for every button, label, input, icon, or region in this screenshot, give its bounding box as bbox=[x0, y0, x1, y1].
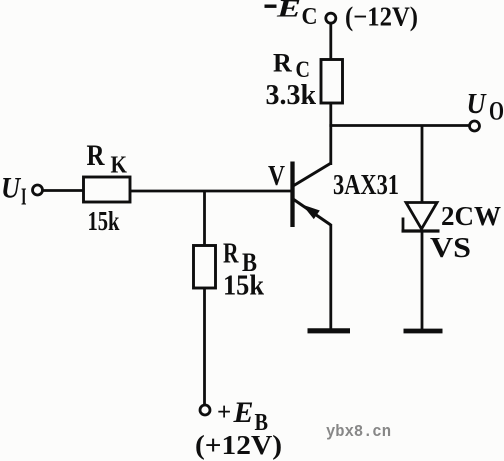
label RC bbox=[273, 49, 310, 83]
svg-text:E: E bbox=[233, 396, 254, 429]
wire base node to RB bbox=[203, 191, 206, 246]
wire output node horizontal bbox=[329, 124, 470, 127]
svg-text:R: R bbox=[87, 139, 105, 172]
wire emitter to ground bbox=[329, 224, 332, 329]
svg-text:C: C bbox=[302, 3, 318, 30]
transistor V bbox=[293, 162, 331, 228]
resistor RC bbox=[321, 60, 343, 104]
label -EC bbox=[265, 0, 318, 30]
node UI terminal bbox=[33, 185, 43, 195]
wire diode to ground bbox=[421, 231, 424, 330]
wire output to diode bbox=[421, 126, 424, 204]
ground (diode) bbox=[404, 329, 443, 334]
wire EC terminal to RC bbox=[329, 23, 332, 60]
wire UI to RK bbox=[43, 189, 84, 192]
label +EB bbox=[217, 396, 268, 436]
svg-text:E: E bbox=[276, 0, 301, 23]
svg-text:3.3k: 3.3k bbox=[266, 80, 317, 111]
svg-text:2CW: 2CW bbox=[441, 201, 501, 231]
resistor RK bbox=[84, 177, 131, 202]
svg-text:R: R bbox=[223, 238, 239, 270]
svg-text:I: I bbox=[21, 184, 27, 210]
node UO terminal bbox=[470, 121, 480, 131]
wire RK to base bbox=[130, 190, 292, 193]
node EB terminal bbox=[200, 405, 210, 415]
label RK bbox=[87, 139, 128, 178]
svg-text:U: U bbox=[1, 172, 21, 205]
resistor RB bbox=[194, 246, 216, 289]
wire RB to EB terminal bbox=[203, 288, 206, 405]
wire RC to collector bbox=[329, 103, 332, 165]
svg-text:15k: 15k bbox=[223, 269, 265, 301]
ground (emitter) bbox=[308, 328, 351, 333]
svg-text:3AX31: 3AX31 bbox=[333, 170, 399, 201]
label UO bbox=[467, 88, 504, 126]
svg-text:O: O bbox=[489, 97, 504, 126]
label RB bbox=[223, 238, 257, 278]
node -EC terminal bbox=[326, 13, 336, 23]
label UI bbox=[1, 172, 27, 211]
svg-text:V: V bbox=[268, 160, 285, 192]
svg-text:VS: VS bbox=[430, 232, 471, 264]
zener diode VS bbox=[402, 203, 440, 232]
svg-text:K: K bbox=[111, 152, 128, 178]
svg-text:ybx8.cn: ybx8.cn bbox=[326, 422, 391, 441]
svg-text:R: R bbox=[273, 49, 292, 78]
svg-text:U: U bbox=[467, 88, 488, 120]
svg-text:C: C bbox=[296, 57, 311, 82]
svg-text:+: + bbox=[217, 399, 231, 426]
svg-text:15k: 15k bbox=[88, 206, 120, 236]
svg-text:(+12V): (+12V) bbox=[195, 430, 282, 460]
svg-text:(−12V): (−12V) bbox=[345, 2, 418, 32]
